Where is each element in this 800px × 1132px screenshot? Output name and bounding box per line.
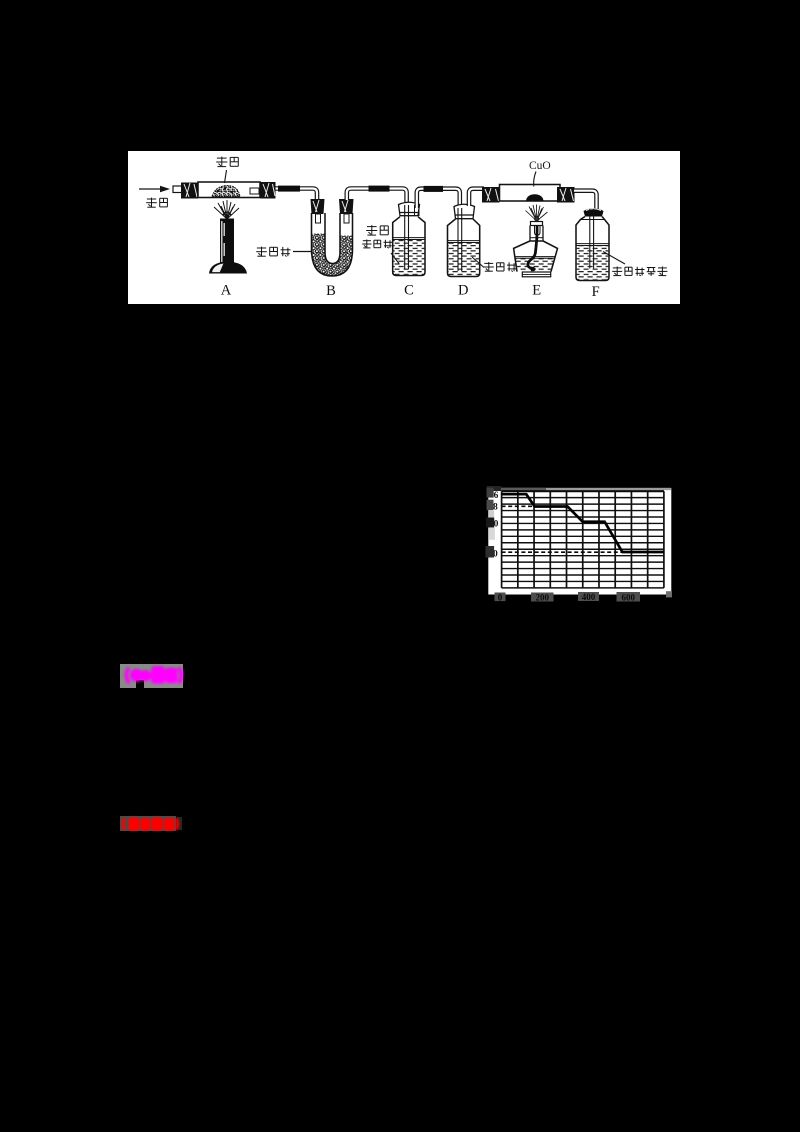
rubber connector on pipe B-C	[368, 186, 389, 192]
pointer line 硫酸铜	[293, 251, 311, 253]
pointer line 样品	[224, 170, 226, 183]
magenta tag notch	[136, 680, 144, 688]
bottle D acid	[447, 241, 479, 276]
dashed reference line lower	[502, 551, 664, 553]
thermogravimetric chart	[480, 470, 700, 612]
stopper left of tube A	[181, 183, 198, 199]
stopper on U-tube left arm	[310, 199, 324, 214]
bottle C outlet stub	[414, 205, 419, 216]
stopper right of tube A	[260, 182, 276, 199]
pointer line 澄清石灰水	[603, 252, 625, 265]
chart white background	[488, 488, 671, 594]
bottle D dip tube	[458, 208, 462, 271]
svg-text:CuO: CuO	[529, 160, 551, 172]
svg-text:0: 0	[498, 592, 503, 602]
flame of lamp E	[525, 205, 547, 222]
svg-text:E: E	[532, 283, 541, 299]
chart top edge grey strip	[501, 488, 671, 490]
CuO tube E	[499, 185, 560, 202]
lamp E neck	[530, 226, 543, 242]
wire: inlet arrow 氮气	[139, 186, 170, 193]
label 浓硫酸 (conc. sulfuric acid)	[483, 262, 516, 272]
x axis label 200	[531, 593, 554, 603]
svg-text:D: D	[458, 283, 468, 299]
label 硫酸铜 (copper sulfate)	[256, 247, 290, 257]
x axis label 0	[495, 592, 506, 602]
combustion tube A	[198, 182, 260, 198]
svg-text:A: A	[220, 283, 231, 299]
wire: pipe U-tube B to bottle C	[346, 189, 406, 206]
magenta tag text (共8分)	[112, 656, 196, 696]
bottle C limewater	[392, 238, 424, 275]
bottle D body	[447, 219, 479, 277]
sample pile in tube A	[212, 186, 240, 197]
wire: pipe bottle C to bottle D	[416, 189, 459, 208]
y axis labels (clipped digits)	[493, 491, 499, 560]
lamp E body	[513, 241, 557, 272]
svg-text:B: B	[326, 283, 336, 299]
svg-text:F: F	[591, 284, 599, 300]
bottle F cap	[583, 208, 603, 216]
wire: pipe tube E to bottle F	[574, 191, 597, 211]
stopper left of tube E	[482, 187, 500, 203]
tube stubs below U-tube stoppers	[315, 214, 349, 223]
bottle C stopper cap	[398, 202, 419, 215]
burner A stem	[220, 219, 234, 265]
label 澄清 (clear)	[366, 225, 388, 235]
label 样品 (sample)	[216, 157, 238, 167]
apparatus figure panel	[128, 151, 680, 304]
bottle F body	[576, 217, 609, 281]
label 澄清石灰水 (limewater, right)	[612, 267, 667, 276]
mass curve	[502, 494, 664, 552]
wire: pipe bottle D to tube E	[469, 189, 484, 206]
wire: connector at tube A left	[173, 186, 182, 193]
svg-text:600: 600	[621, 592, 635, 602]
bottom right corner block	[666, 591, 672, 597]
U-tube B glass	[311, 213, 352, 276]
bottle F neck lines	[580, 219, 604, 221]
svg-text:6: 6	[494, 491, 499, 501]
grid top border	[502, 490, 664, 492]
x axis label 600	[617, 592, 641, 602]
grid vertical lines	[502, 491, 664, 588]
boat in tube A	[250, 188, 259, 194]
pointer line CuO	[533, 172, 535, 187]
lamp E wick	[527, 226, 536, 270]
label 氮气 (nitrogen in)	[146, 198, 167, 208]
stopper right of tube E	[557, 187, 575, 203]
dashed reference line upper	[502, 505, 536, 507]
stopper on U-tube right arm	[339, 199, 354, 214]
red tag text (共10分)	[112, 808, 196, 840]
svg-text:C: C	[404, 283, 414, 299]
bottle F dip tube	[589, 209, 593, 269]
bottle C body	[392, 217, 424, 276]
flame under tube A	[214, 200, 239, 219]
pointer line 浓硫酸	[472, 257, 484, 268]
pointer line 石灰水	[391, 253, 399, 264]
rubber connector on pipe C-D	[423, 186, 443, 192]
rubber connector on pipe A-B	[278, 186, 300, 192]
x axis label 400	[578, 592, 599, 602]
svg-text:200: 200	[535, 593, 549, 603]
svg-text:400: 400	[582, 592, 596, 602]
granule packing in U-tube B	[311, 234, 352, 276]
bottle C dip tube	[404, 205, 408, 269]
label 石灰水 (limewater)	[362, 240, 392, 249]
lamp E alcohol	[514, 257, 555, 271]
CuO mound in tube E	[526, 194, 544, 200]
lamp E wick collar	[530, 222, 542, 226]
burner A base	[209, 262, 247, 274]
grid horizontal lines	[502, 491, 664, 588]
lamp E base	[522, 272, 550, 277]
bottle D stopper cap	[454, 204, 475, 218]
red tag background	[120, 816, 177, 831]
red tag cursor mark	[177, 817, 182, 830]
wire: pipe tube A to U-tube B	[275, 189, 317, 201]
y label left cover blocks	[486, 486, 502, 558]
bottle F limewater	[576, 244, 609, 280]
magenta tag background	[120, 664, 183, 688]
